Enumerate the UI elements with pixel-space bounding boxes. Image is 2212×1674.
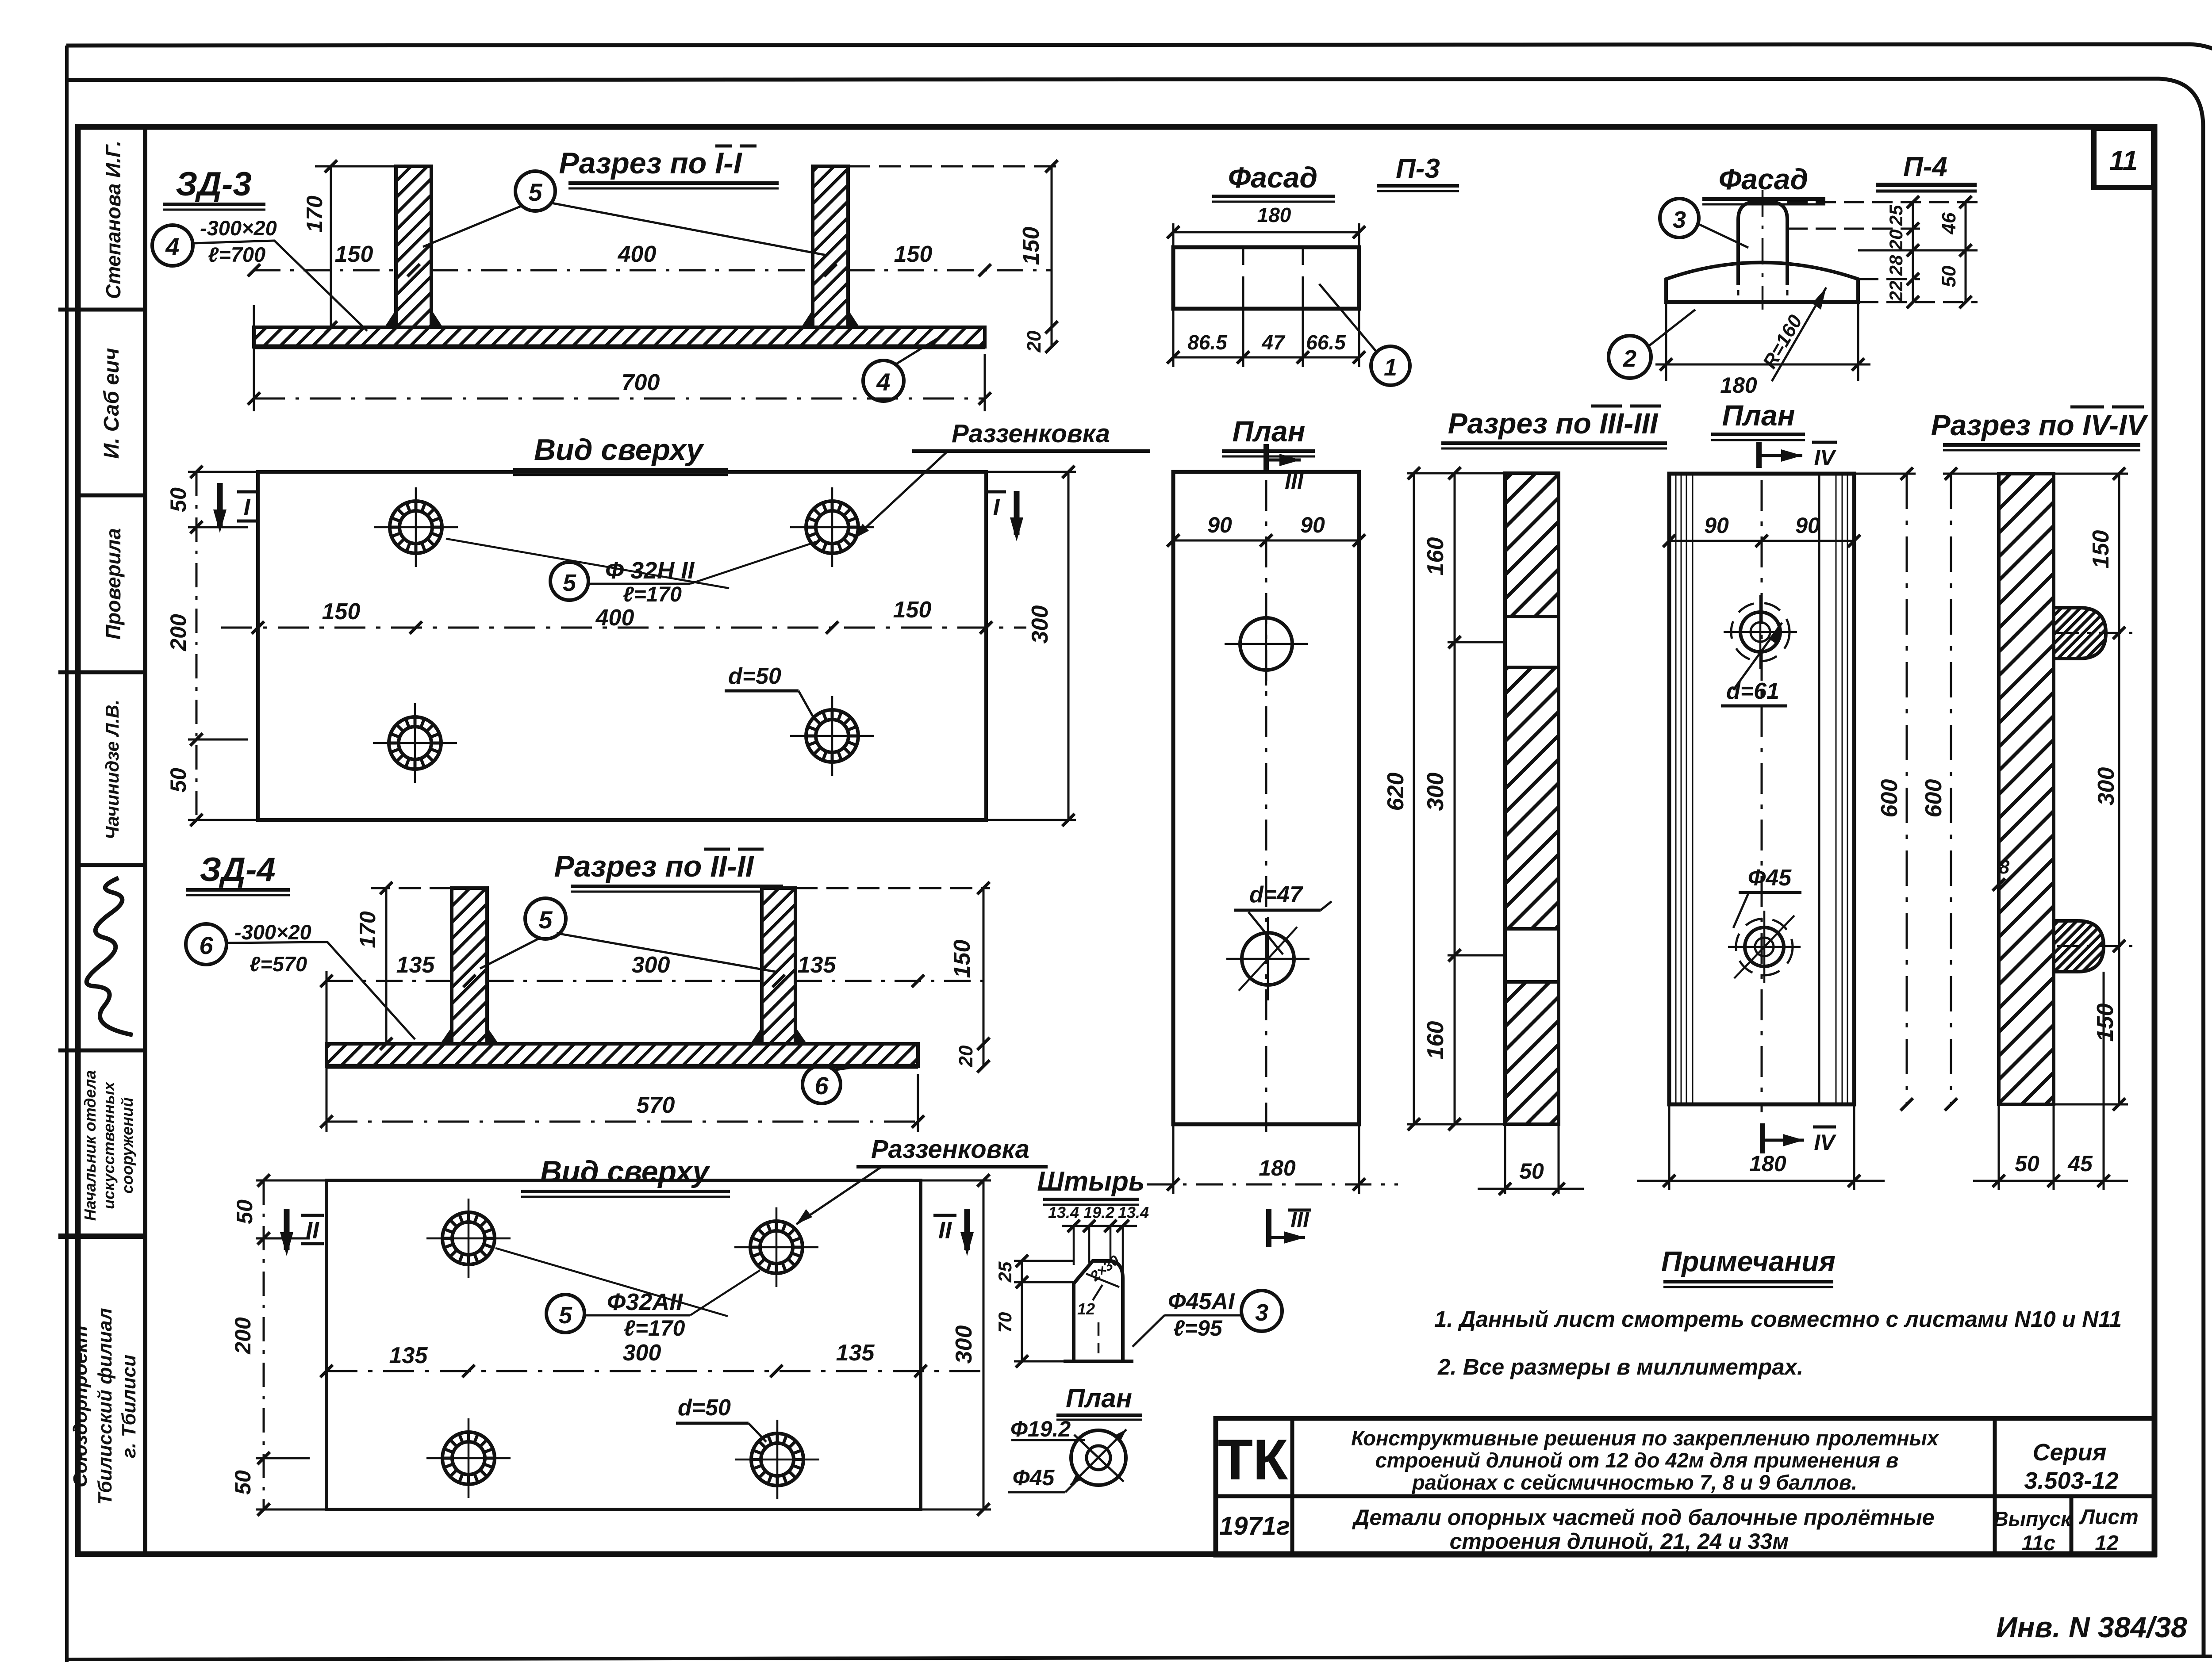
left extension line — [253, 305, 255, 411]
right dim 300 — [983, 1180, 985, 1509]
svg-text:строения длиной, 21, 24 и 3: строения длиной, 21, 24 и 33м — [1450, 1529, 1789, 1554]
svg-text:47: 47 — [1261, 331, 1286, 354]
dim 86.5/47/66.5 — [1173, 356, 1359, 359]
svg-text:IV: IV — [1814, 1130, 1836, 1155]
svg-text:5: 5 — [538, 906, 553, 934]
radius R=160 — [1772, 287, 1826, 381]
title block outline — [1216, 1418, 2154, 1555]
svg-text:Разрез по III-III: Разрез по III-III — [1448, 407, 1659, 440]
left dim chain 50/200/50 — [263, 1180, 265, 1509]
section IV-IV body (hatched) — [1999, 474, 2054, 1104]
section mark IV bottom — [1760, 1123, 1765, 1153]
hidden lines in facade — [1243, 247, 1303, 309]
svg-text:20: 20 — [1023, 330, 1045, 352]
svg-text:6: 6 — [814, 1072, 829, 1099]
right dim chain 25/20/28/22 — [1787, 202, 1978, 302]
svg-text:135: 135 — [798, 952, 837, 978]
svg-text:Серия: Серия — [2033, 1439, 2107, 1466]
dim 600 (plan height) — [1906, 474, 1908, 1104]
title block row divider — [1216, 1494, 2154, 1498]
svg-text:600: 600 — [1921, 779, 1947, 818]
svg-text:-300×20: -300×20 — [234, 920, 311, 944]
svg-text:-300×20: -300×20 — [200, 216, 277, 240]
countersunk hole bottom-right — [735, 1420, 819, 1499]
section mark II right — [964, 1209, 970, 1250]
svg-text:12: 12 — [2095, 1532, 2119, 1555]
dim 700 — [254, 398, 985, 400]
left extension line — [326, 971, 328, 1132]
stamp column divider — [143, 127, 147, 1555]
svg-text:66.5: 66.5 — [1306, 331, 1346, 354]
svg-text:сооружений: сооружений — [118, 1097, 136, 1194]
dim line 135/300/135 — [326, 1370, 983, 1372]
svg-text:Лист: Лист — [2079, 1505, 2139, 1529]
section III-III body (hatched) — [1505, 473, 1559, 1124]
bearing pad П-3 facade outline — [1173, 247, 1359, 309]
countersunk hole bottom-right — [790, 696, 874, 776]
svg-text:Ф19.2: Ф19.2 — [1010, 1417, 1071, 1441]
centre dashed in pin — [1098, 1322, 1100, 1353]
right dim chain 150 / 20 — [983, 888, 985, 1066]
svg-text:Степанова И.Г.: Степанова И.Г. — [102, 141, 125, 299]
svg-text:46: 46 — [1938, 212, 1960, 234]
left dim chain 25/70 — [1021, 1261, 1023, 1361]
sheet title row 2 — [1352, 1505, 1934, 1554]
svg-text:90: 90 — [1300, 513, 1325, 537]
svg-text:ЗД-4: ЗД-4 — [200, 851, 275, 889]
svg-text:2. Все размеры в миллиметрах.: 2. Все размеры в миллиметрах. — [1437, 1354, 1803, 1379]
svg-text:180: 180 — [1257, 203, 1291, 226]
plate outline top view ЗД-4 — [326, 1180, 921, 1509]
svg-text:150: 150 — [2093, 1004, 2118, 1042]
svg-text:Ф45: Ф45 — [1013, 1465, 1055, 1490]
svg-text:90: 90 — [1704, 513, 1729, 538]
stamp row divider 1 — [58, 308, 145, 312]
svg-text:Фасад: Фасад — [1228, 161, 1317, 194]
section mark II left — [284, 1209, 290, 1250]
svg-text:строений длиной от 12 до 42м: строений длиной от 12 до 42м для примене… — [1375, 1448, 1899, 1472]
svg-text:180: 180 — [1259, 1156, 1296, 1180]
svg-text:11с: 11с — [2022, 1532, 2056, 1555]
svg-text:20: 20 — [955, 1045, 977, 1067]
hole Ф45 (dashed countersink rings) — [1736, 919, 1793, 975]
pad П-3 plan outline — [1173, 472, 1359, 1124]
rib 2 (hatched) — [813, 166, 848, 327]
stamp row divider 4 — [78, 863, 145, 867]
callout circle 1 — [1371, 346, 1410, 385]
svg-text:3.503-12: 3.503-12 — [2024, 1467, 2118, 1494]
svg-text:5: 5 — [528, 178, 542, 206]
svg-text:Выпуск: Выпуск — [1993, 1507, 2072, 1530]
svg-text:400: 400 — [595, 605, 634, 631]
svg-text:Ф45: Ф45 — [1748, 865, 1792, 891]
callout circle 5 — [515, 171, 555, 211]
right dim chain 150 / 20 — [1051, 166, 1053, 347]
svg-text:3: 3 — [1673, 207, 1686, 233]
svg-text:135: 135 — [396, 952, 435, 978]
tenon 1 (hatched bullet) — [2054, 608, 2106, 659]
countersunk hole bottom-left — [426, 1418, 511, 1498]
svg-text:620: 620 — [1383, 773, 1409, 811]
svg-text:50: 50 — [1519, 1159, 1544, 1184]
svg-text:Разрез по IV-IV: Разрез по IV-IV — [1931, 409, 2149, 441]
svg-text:Конструктивные решения по з: Конструктивные решения по закреплению пр… — [1351, 1426, 1939, 1450]
svg-text:170: 170 — [355, 911, 380, 948]
svg-text:300: 300 — [951, 1325, 977, 1364]
callout circle 6 right — [803, 1065, 841, 1103]
hole d=61 (dashed countersink rings) — [1731, 603, 1790, 661]
svg-text:Тбилисский филиал: Тбилисский филиал — [94, 1308, 116, 1505]
svg-text:искусственных: искусственных — [100, 1081, 118, 1209]
svg-text:1971г: 1971г — [1219, 1512, 1290, 1540]
svg-text:300: 300 — [2093, 767, 2119, 806]
svg-text:II: II — [938, 1217, 952, 1244]
dim 180 bottom — [1666, 302, 1858, 381]
left dim chain 50/200/50 — [196, 472, 198, 820]
svg-text:Вид сверху: Вид сверху — [534, 433, 704, 467]
svg-text:300: 300 — [1423, 773, 1448, 811]
svg-text:19.2: 19.2 — [1083, 1203, 1114, 1222]
svg-text:План: План — [1722, 399, 1795, 432]
stamp row divider 3 — [58, 670, 145, 674]
svg-text:1. Данный лист смотреть совмес: 1. Данный лист смотреть совместно с лист… — [1434, 1306, 2122, 1332]
svg-text:150: 150 — [949, 940, 975, 978]
hole d47 lower — [1242, 933, 1294, 985]
svg-text:Примечания: Примечания — [1661, 1245, 1836, 1277]
callout circle 4 left — [152, 225, 193, 266]
centre line vertical — [1265, 480, 1267, 1132]
stamp row divider 2 — [78, 494, 145, 498]
centre line — [1762, 190, 1764, 310]
svg-text:150: 150 — [335, 241, 373, 267]
centre lines through tenons — [2057, 633, 2137, 946]
svg-text:План: План — [1232, 415, 1305, 448]
callout circle 3 — [1660, 199, 1699, 238]
stamp text Союздорпроект Тбилисский филиал г.Тбилиси — [69, 1308, 140, 1505]
tenon 2 (hatched bullet) — [2054, 921, 2104, 972]
svg-text:Раззенковка: Раззенковка — [871, 1135, 1029, 1164]
callout circle 6 left — [186, 924, 227, 965]
countersunk hole bottom-left — [373, 703, 457, 783]
svg-text:Детали опорных частей под: Детали опорных частей под балочные пролё… — [1352, 1505, 1934, 1530]
svg-text:г. Тбилиси: г. Тбилиси — [118, 1355, 140, 1458]
svg-text:90: 90 — [1207, 513, 1232, 537]
svg-text:8: 8 — [1999, 856, 2010, 878]
svg-text:П-3: П-3 — [1396, 153, 1440, 184]
svg-text:170: 170 — [302, 195, 327, 233]
countersunk hole top-left — [374, 487, 458, 567]
dim 600 (section height) — [1950, 474, 1952, 1104]
svg-text:районах с сейсмичностью 7,: районах с сейсмичностью 7, 8 и 9 баллов. — [1411, 1471, 1857, 1494]
svg-text:180: 180 — [1720, 373, 1757, 398]
callout circle 2 — [1609, 336, 1651, 378]
stamp row divider 5 — [58, 1049, 145, 1053]
svg-text:ℓ=570: ℓ=570 — [250, 952, 307, 976]
right dim 300 — [1068, 472, 1070, 820]
recess 2 — [1507, 929, 1557, 982]
svg-text:4: 4 — [876, 368, 890, 396]
svg-text:50: 50 — [2015, 1151, 2039, 1176]
svg-text:Разрез по I-I: Разрез по I-I — [559, 146, 742, 180]
svg-text:II: II — [306, 1217, 319, 1244]
svg-text:22: 22 — [1886, 281, 1906, 302]
rib 2 (hatched) — [762, 888, 795, 1044]
countersunk hole top-right — [790, 487, 874, 567]
centre line vertical — [1761, 480, 1763, 1112]
svg-text:300: 300 — [623, 1340, 661, 1366]
callout circle 5 with Ф32НII — [550, 562, 588, 600]
svg-text:20: 20 — [1886, 230, 1906, 251]
svg-text:200: 200 — [166, 614, 191, 651]
svg-text:d=50: d=50 — [728, 663, 781, 689]
extension lines down — [1173, 287, 1359, 367]
svg-text:570: 570 — [637, 1092, 675, 1118]
dim line 135/300/135 — [326, 980, 983, 982]
dim 620 line — [1413, 473, 1415, 1124]
svg-text:45: 45 — [2067, 1151, 2093, 1176]
svg-text:2: 2 — [1623, 345, 1636, 372]
svg-text:150: 150 — [322, 599, 361, 624]
svg-text:ТК: ТК — [1218, 1427, 1288, 1492]
label d=61 — [1733, 623, 1782, 690]
stamp row divider 6 — [58, 1233, 145, 1239]
svg-text:200: 200 — [230, 1317, 255, 1355]
svg-text:25: 25 — [1886, 205, 1906, 226]
svg-text:Вид сверху: Вид сверху — [540, 1155, 710, 1188]
hole d47 upper — [1240, 618, 1292, 670]
svg-text:Проверила: Проверила — [102, 528, 125, 640]
svg-text:180: 180 — [1749, 1151, 1786, 1176]
svg-text:70: 70 — [995, 1312, 1015, 1333]
svg-text:I: I — [993, 494, 1000, 521]
svg-text:1: 1 — [1384, 354, 1397, 381]
weld fillets — [384, 310, 443, 327]
svg-text:150: 150 — [2088, 530, 2114, 569]
base plate ЗД-4 (hatched) — [326, 1044, 918, 1066]
section mark III bottom — [1266, 1209, 1271, 1247]
base plate ЗД-3 (hatched) — [254, 327, 985, 347]
svg-text:Инв. N 384/38: Инв. N 384/38 — [1996, 1611, 2187, 1643]
sheet number box 11 — [2094, 128, 2154, 188]
dim 170 vertical — [385, 888, 388, 1044]
countersunk hole top-left — [426, 1199, 511, 1278]
hidden pin lines — [1738, 265, 1787, 295]
grain lines — [1676, 474, 1847, 1104]
svg-text:50: 50 — [166, 487, 191, 512]
callout circle 5 with Ф32АII — [546, 1295, 584, 1333]
dim 570 — [326, 1121, 918, 1123]
svg-text:ЗД-3: ЗД-3 — [176, 165, 251, 203]
dim 160/300/160 line — [1454, 473, 1456, 1124]
svg-text:160: 160 — [1423, 537, 1448, 576]
svg-text:И. Саб еич: И. Саб еич — [100, 348, 123, 459]
svg-text:Штырь: Штырь — [1037, 1166, 1144, 1197]
pin profile — [1074, 1261, 1123, 1361]
svg-text:50: 50 — [1938, 265, 1960, 287]
svg-text:160: 160 — [1423, 1021, 1448, 1060]
rib 1 (hatched) — [452, 888, 487, 1044]
svg-text:11: 11 — [2109, 146, 2138, 176]
stamp text Начальник отдела искусственных сооружений — [81, 1070, 136, 1221]
svg-text:12: 12 — [1077, 1300, 1095, 1318]
outer sheet border bottom line — [67, 1656, 2212, 1659]
svg-text:Раззенковка: Раззенковка — [952, 419, 1110, 448]
project description row 1 — [1351, 1426, 1939, 1494]
svg-text:d=50: d=50 — [678, 1395, 731, 1421]
svg-text:135: 135 — [836, 1340, 875, 1366]
section mark III top — [1263, 444, 1269, 470]
pad П-4 plan outline — [1669, 474, 1854, 1104]
recess 1 — [1507, 617, 1557, 667]
svg-text:ℓ=700: ℓ=700 — [208, 243, 265, 266]
svg-text:50: 50 — [230, 1470, 255, 1495]
svg-text:13.4: 13.4 — [1048, 1203, 1079, 1222]
centre line with dims 150/400/150 — [221, 627, 1026, 629]
svg-text:ℓ=170: ℓ=170 — [623, 583, 682, 606]
svg-text:IV: IV — [1814, 445, 1836, 470]
section mark IV top — [1756, 442, 1762, 468]
svg-text:150: 150 — [1018, 227, 1044, 265]
countersunk hole top-right — [734, 1207, 818, 1287]
svg-text:Ф45АI: Ф45АI — [1168, 1289, 1235, 1314]
svg-text:d=47: d=47 — [1249, 882, 1303, 908]
dim line 150/400/150 — [254, 269, 1052, 272]
dim 170 vertical — [330, 166, 332, 327]
weld fillets — [440, 1027, 499, 1044]
svg-text:400: 400 — [618, 241, 657, 267]
callout circle 4 right — [863, 360, 904, 401]
svg-text:50: 50 — [232, 1199, 257, 1224]
svg-text:4: 4 — [165, 233, 179, 260]
svg-text:Разрез по II-II: Разрез по II-II — [554, 850, 755, 883]
svg-text:86.5: 86.5 — [1187, 331, 1228, 354]
svg-text:ℓ=170: ℓ=170 — [624, 1316, 685, 1341]
outer sheet border left vertical — [65, 46, 69, 1662]
pin plan circles — [1071, 1430, 1126, 1485]
svg-text:Союздорпроект: Союздорпроект — [69, 1325, 91, 1487]
svg-text:5: 5 — [563, 570, 576, 596]
svg-text:3: 3 — [1255, 1299, 1268, 1326]
svg-text:25: 25 — [995, 1261, 1015, 1283]
svg-text:13.4: 13.4 — [1118, 1203, 1149, 1222]
svg-text:ℓ=95: ℓ=95 — [1173, 1316, 1223, 1341]
stamp signature row 5 — [87, 878, 133, 1035]
section mark I left — [217, 483, 223, 526]
svg-text:300: 300 — [632, 952, 670, 978]
svg-text:28: 28 — [1886, 255, 1906, 276]
svg-text:150: 150 — [894, 241, 933, 267]
svg-text:600: 600 — [1877, 779, 1902, 818]
dim chain 46/50 — [1965, 202, 1967, 302]
dim 50/45 bottom — [1999, 972, 2104, 1190]
plate outline top view — [258, 472, 986, 820]
svg-text:Начальник отдела: Начальник отдела — [81, 1070, 99, 1221]
svg-text:5: 5 — [559, 1302, 572, 1329]
svg-text:150: 150 — [893, 597, 932, 623]
svg-text:Чачинидзе Л.В.: Чачинидзе Л.В. — [102, 700, 123, 840]
svg-text:300: 300 — [1027, 605, 1053, 644]
section mark I right — [1014, 491, 1020, 535]
svg-text:d=61: d=61 — [1726, 678, 1779, 704]
title block verticals — [1292, 1418, 2071, 1555]
rib 1 (hatched) — [396, 166, 431, 327]
dim 180 bottom — [1669, 1104, 1854, 1190]
svg-text:90: 90 — [1795, 513, 1820, 538]
svg-text:I: I — [243, 494, 250, 521]
pad arc body — [1666, 263, 1858, 303]
svg-text:П-4: П-4 — [1903, 152, 1947, 182]
callout circle 5 — [525, 898, 566, 939]
dim 180 bottom — [1173, 1124, 1359, 1194]
pin dome outline — [1738, 202, 1787, 285]
dim 90/90 — [1173, 540, 1359, 542]
svg-text:700: 700 — [622, 370, 660, 395]
right dim chain 150/300/150 — [2118, 474, 2120, 1104]
dim 50 bottom — [1505, 1124, 1559, 1194]
dim 90/90 — [1669, 540, 1854, 542]
extension lines — [1407, 473, 1505, 1124]
svg-text:6: 6 — [199, 931, 213, 959]
svg-text:135: 135 — [389, 1343, 428, 1368]
svg-text:50: 50 — [166, 768, 191, 793]
svg-text:План: План — [1066, 1383, 1132, 1413]
